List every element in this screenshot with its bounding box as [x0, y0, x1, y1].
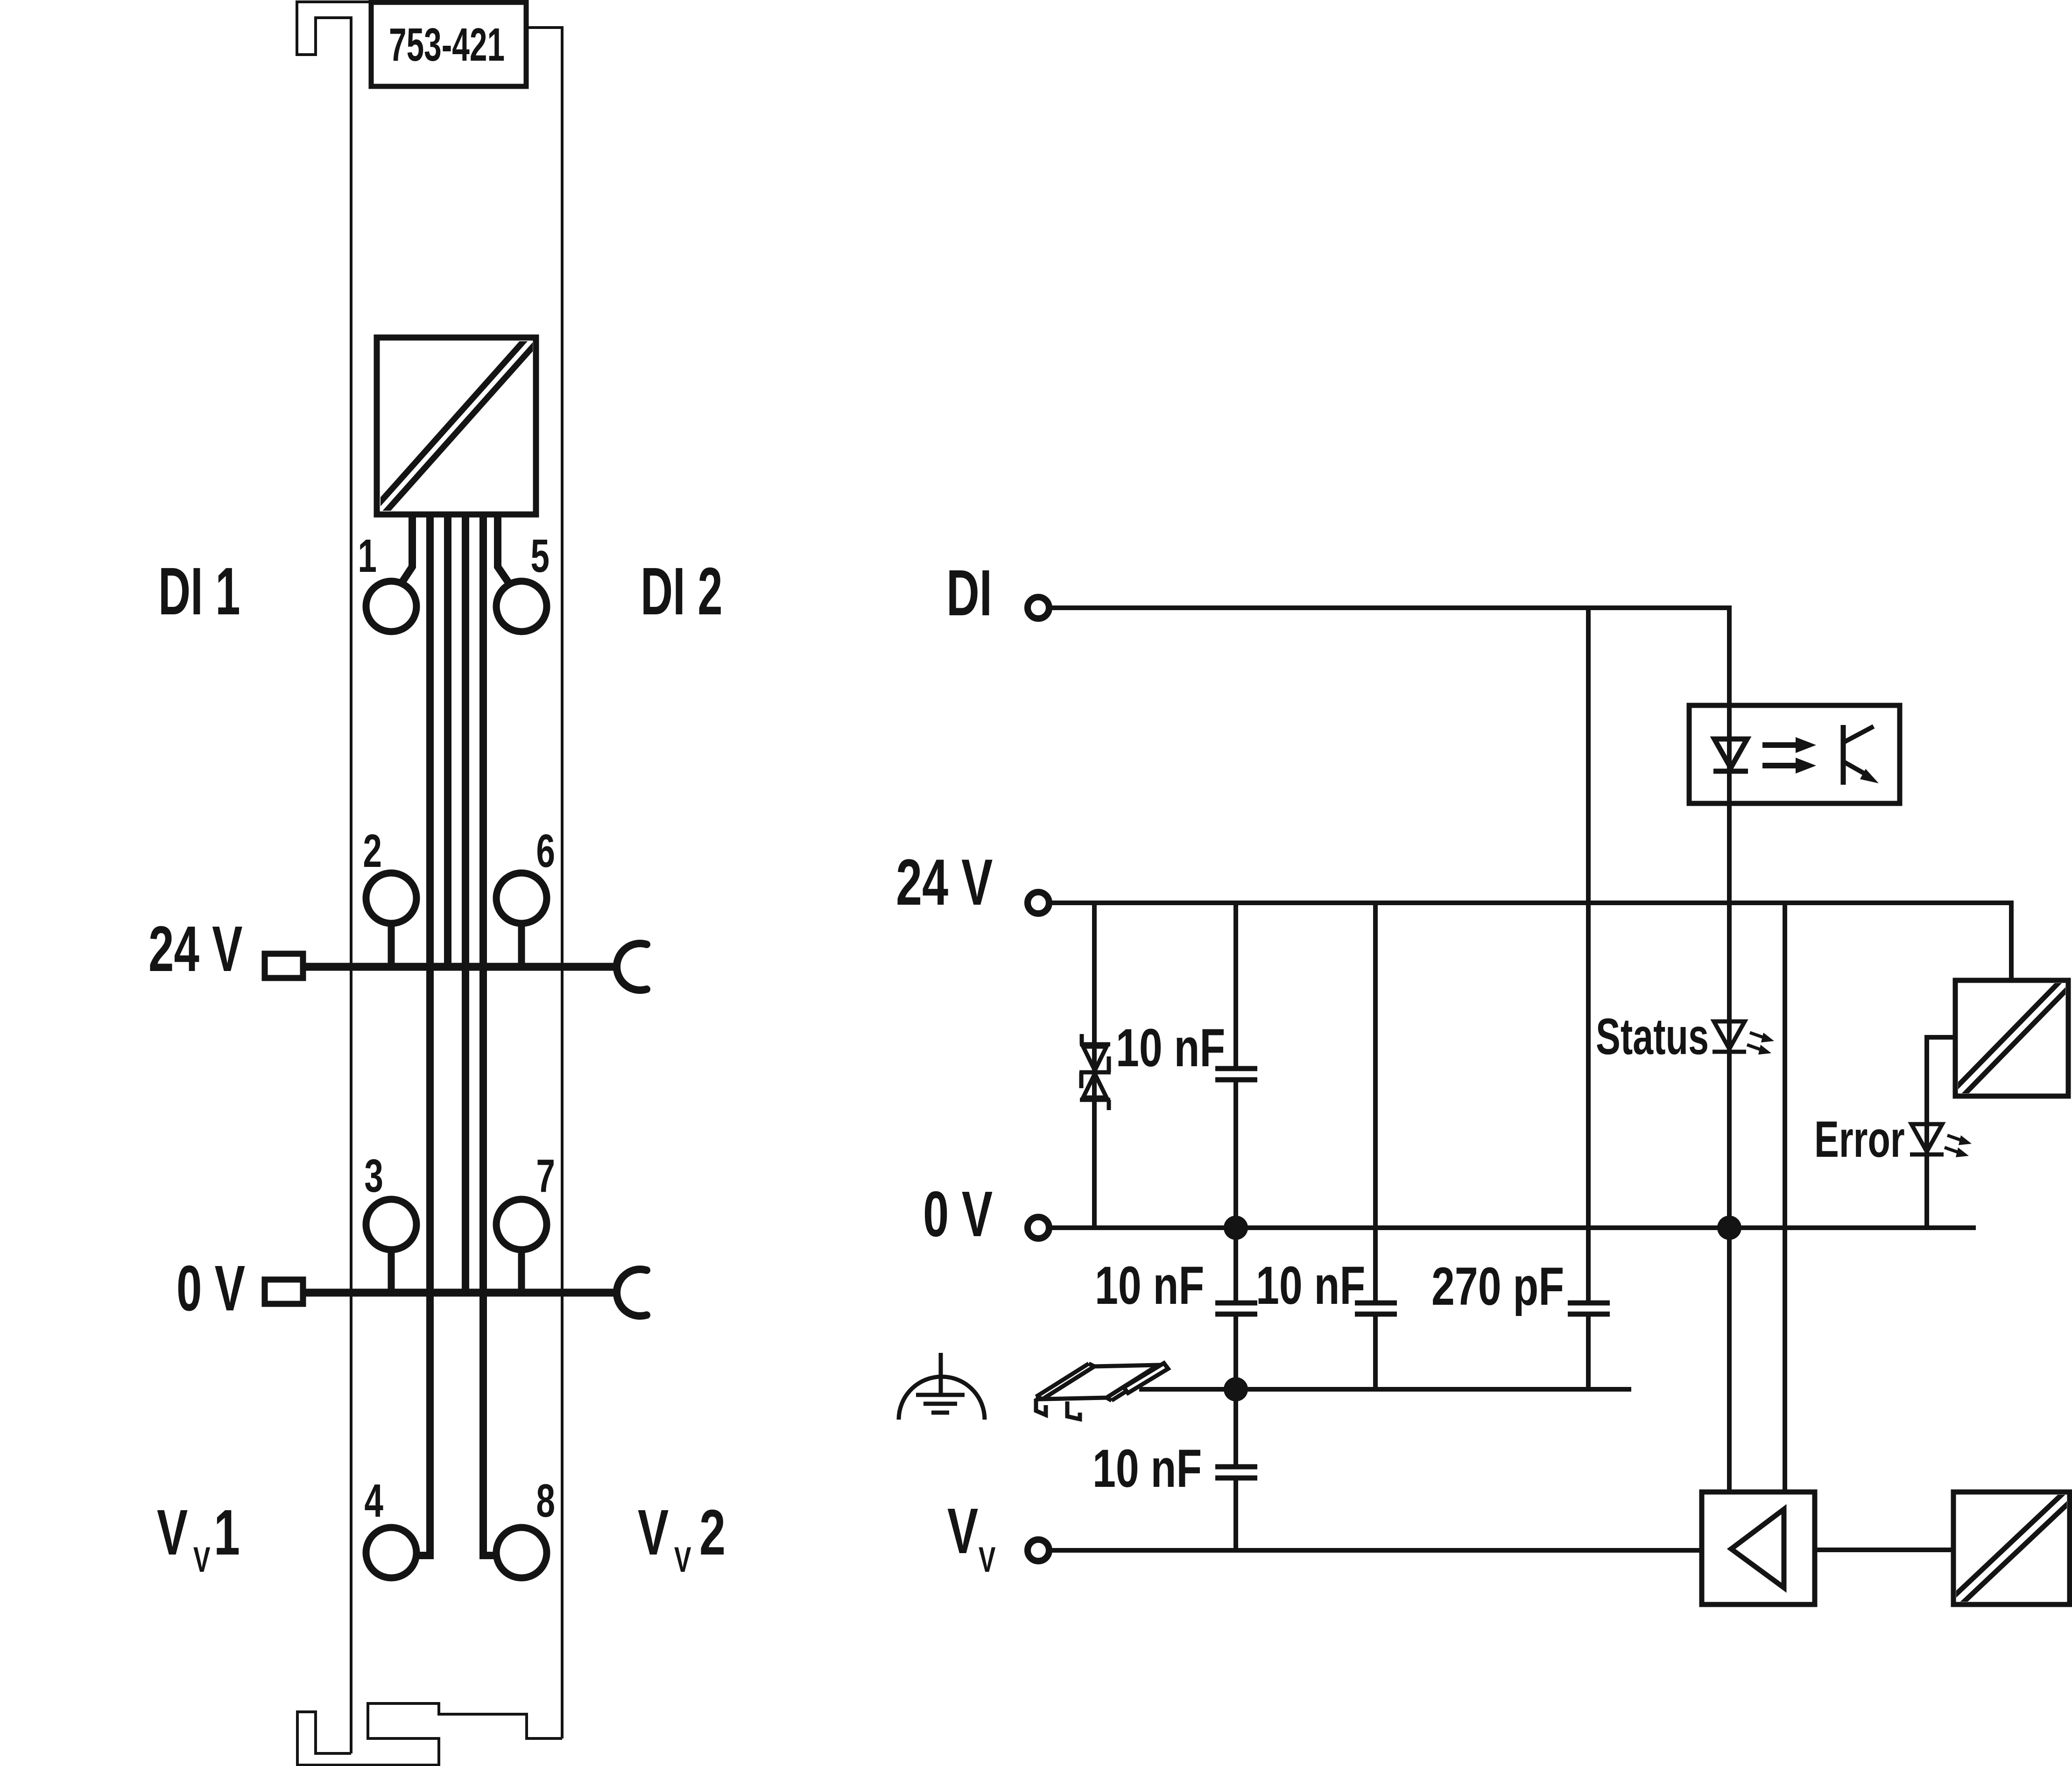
junction dot 0V/status	[1717, 1216, 1741, 1240]
label Vv (schematic)	[947, 1495, 978, 1567]
C4 value label 270 pF	[1431, 1256, 1564, 1316]
U4 amplifier triangle	[1731, 1509, 1784, 1588]
C3 value label 10 nF	[1256, 1255, 1365, 1315]
svg-text:2: 2	[699, 1496, 726, 1568]
U5 double diagonal	[1943, 1483, 2072, 1615]
capacitor C3 10 nF plates	[1355, 1303, 1397, 1314]
svg-text:3: 3	[364, 1150, 383, 1202]
pin number 6	[536, 825, 555, 877]
svg-text:10 nF: 10 nF	[1095, 1255, 1204, 1315]
TVS suppressor branch wire	[1092, 903, 1097, 1228]
opto LED D2	[1713, 739, 1748, 771]
0V field rail inside module	[306, 1289, 619, 1297]
svg-text:Status: Status	[1596, 1008, 1709, 1065]
optocoupler box U2	[1689, 705, 1900, 803]
DC/DC converter box U3 (top right)	[1955, 980, 2068, 1096]
label DI (schematic)	[946, 556, 992, 629]
24V field rail inside module	[306, 963, 619, 971]
Error label	[1814, 1111, 1905, 1168]
svg-text:DI: DI	[946, 556, 992, 629]
pin wire bus C (to 0V rail)	[462, 517, 469, 1293]
Error LED branch wire	[1927, 1037, 1956, 1228]
capacitor branch wire C2 (0V to shield)	[1233, 1228, 1238, 1389]
label 0 V (module)	[176, 1253, 245, 1324]
svg-text:Error: Error	[1814, 1111, 1905, 1168]
svg-text:V: V	[193, 1540, 211, 1580]
svg-text:DI 2: DI 2	[641, 553, 723, 628]
label DI 1	[158, 553, 240, 628]
C1 value label 10 nF	[1116, 1018, 1225, 1077]
svg-text:7: 7	[536, 1150, 555, 1202]
DI filter branch wire (to 270 pF)	[1586, 608, 1591, 1301]
Status label	[1596, 1008, 1709, 1065]
pin wire to terminal 5	[498, 517, 511, 586]
capacitor C1 10 nF plates	[1215, 1069, 1257, 1080]
capacitor C5 10 nF plates	[1215, 1467, 1257, 1478]
pin number 7	[536, 1150, 555, 1202]
opto LED wire through box	[1727, 705, 1732, 1228]
label DI 2	[641, 553, 723, 628]
opto light arrows	[1762, 737, 1816, 774]
svg-text:V: V	[947, 1495, 978, 1567]
pin number 8	[536, 1475, 555, 1527]
U1 double diagonal	[376, 336, 536, 514]
svg-text:6: 6	[536, 825, 555, 877]
capacitor C4 270 pF plates	[1568, 1303, 1610, 1314]
Error LED D4	[1910, 1124, 1944, 1154]
wire amplifier to DC/DC U5	[1815, 1548, 1953, 1552]
C2 value label 10 nF	[1095, 1255, 1204, 1315]
terminal circle 4	[366, 1527, 416, 1578]
Vv rail wire	[1050, 1548, 1702, 1553]
svg-text:10 nF: 10 nF	[1256, 1255, 1365, 1315]
terminal circle 7 with stem to 0V rail	[496, 1199, 547, 1293]
pin wire bus B (to 24V rail)	[444, 517, 451, 967]
C5 value label 10 nF	[1092, 1438, 1202, 1498]
wire 24V rail to amplifier box	[1783, 903, 1787, 1492]
U3 double diagonal	[1949, 974, 2072, 1102]
pin number 2	[363, 825, 382, 877]
DI wire to optocoupler	[1050, 608, 1729, 705]
capacitor branch wire (24V filter)	[1233, 903, 1238, 1228]
terminal circle 1	[366, 581, 416, 632]
svg-text:1: 1	[214, 1496, 240, 1568]
0V plug contact rectangle	[265, 1280, 303, 1304]
24V clamp contact arc	[617, 943, 647, 990]
svg-text:0 V: 0 V	[176, 1253, 245, 1324]
svg-text:10 nF: 10 nF	[1092, 1438, 1202, 1498]
svg-text:4: 4	[364, 1475, 383, 1527]
svg-text:V: V	[979, 1540, 996, 1580]
capacitor C2 10 nF plates	[1215, 1303, 1257, 1314]
junction dot 0V/C2	[1224, 1216, 1248, 1240]
terminal circle 5	[496, 581, 547, 632]
amplifier box U4	[1702, 1492, 1815, 1604]
terminal circle 3 with stem to 0V rail	[366, 1199, 416, 1293]
pin number 1	[358, 530, 377, 582]
module body outline with top mounting hook	[297, 2, 562, 1753]
protective earth symbol	[899, 1353, 985, 1420]
DC/DC converter box U5 (bottom right)	[1953, 1492, 2070, 1604]
label 24 V (schematic)	[896, 846, 993, 919]
svg-text:8: 8	[536, 1475, 555, 1527]
svg-text:V: V	[674, 1540, 691, 1580]
Vv terminal circle	[1028, 1540, 1049, 1561]
0V terminal circle	[1028, 1217, 1049, 1238]
24V terminal circle	[1028, 892, 1049, 914]
module bottom foot outline	[297, 1703, 562, 1765]
svg-text:1: 1	[358, 530, 377, 582]
svg-text:24 V: 24 V	[896, 846, 993, 919]
pin number 5	[530, 530, 550, 582]
svg-text:DI 1: DI 1	[158, 553, 240, 628]
svg-text:24 V: 24 V	[148, 914, 243, 985]
svg-text:0 V: 0 V	[923, 1178, 993, 1250]
svg-text:V: V	[157, 1497, 188, 1569]
C4 branch wire below plates	[1586, 1316, 1591, 1389]
pin number 3	[364, 1150, 383, 1202]
capacitor branch wire C3 (24V to shield)	[1373, 903, 1378, 1389]
label text 753-421	[389, 19, 505, 71]
0V rail wire	[1050, 1225, 1976, 1230]
pin wire bus D (to terminal 8)	[483, 517, 495, 1555]
shield/ground rail wire	[1139, 1387, 1631, 1392]
label Vv 1	[157, 1497, 188, 1569]
label 24 V (module)	[148, 914, 243, 985]
wire 0V dot to amplifier box	[1727, 1228, 1732, 1492]
svg-text:270 pF: 270 pF	[1431, 1256, 1564, 1316]
TVS suppressor diode D1	[1079, 1034, 1111, 1110]
pin number 4	[364, 1475, 383, 1527]
svg-text:2: 2	[363, 825, 382, 877]
24V rail wire	[1050, 903, 2011, 980]
Status LED D3	[1713, 1021, 1746, 1052]
terminal circle 2 with stem to 24V rail	[366, 873, 416, 967]
DI terminal circle	[1028, 597, 1049, 619]
terminal circle 6 with stem to 24V rail	[496, 873, 547, 967]
svg-text:5: 5	[530, 530, 550, 582]
junction dot shield rail	[1224, 1377, 1248, 1401]
electronic module square U1	[377, 338, 536, 514]
0V clamp contact arc	[617, 1269, 647, 1316]
label Vv 2	[638, 1497, 669, 1569]
pin wire to terminal 1	[400, 517, 412, 586]
opto phototransistor Q1	[1843, 725, 1879, 785]
24V plug contact rectangle	[265, 954, 303, 978]
svg-text:V: V	[638, 1497, 669, 1569]
svg-text:753-421: 753-421	[389, 19, 505, 71]
terminal circle 8	[496, 1527, 547, 1578]
Error LED light arrows	[1945, 1135, 1972, 1157]
DIN rail symbol (isometric)	[1036, 1363, 1168, 1419]
pin wire bus A (to terminal 4)	[418, 517, 430, 1555]
svg-text:10 nF: 10 nF	[1116, 1018, 1225, 1077]
label box 753-421	[371, 2, 526, 86]
Status LED light arrows	[1747, 1033, 1774, 1055]
label 0 V (schematic)	[923, 1178, 993, 1250]
capacitor branch wire C5 (shield to Vv)	[1233, 1389, 1238, 1550]
